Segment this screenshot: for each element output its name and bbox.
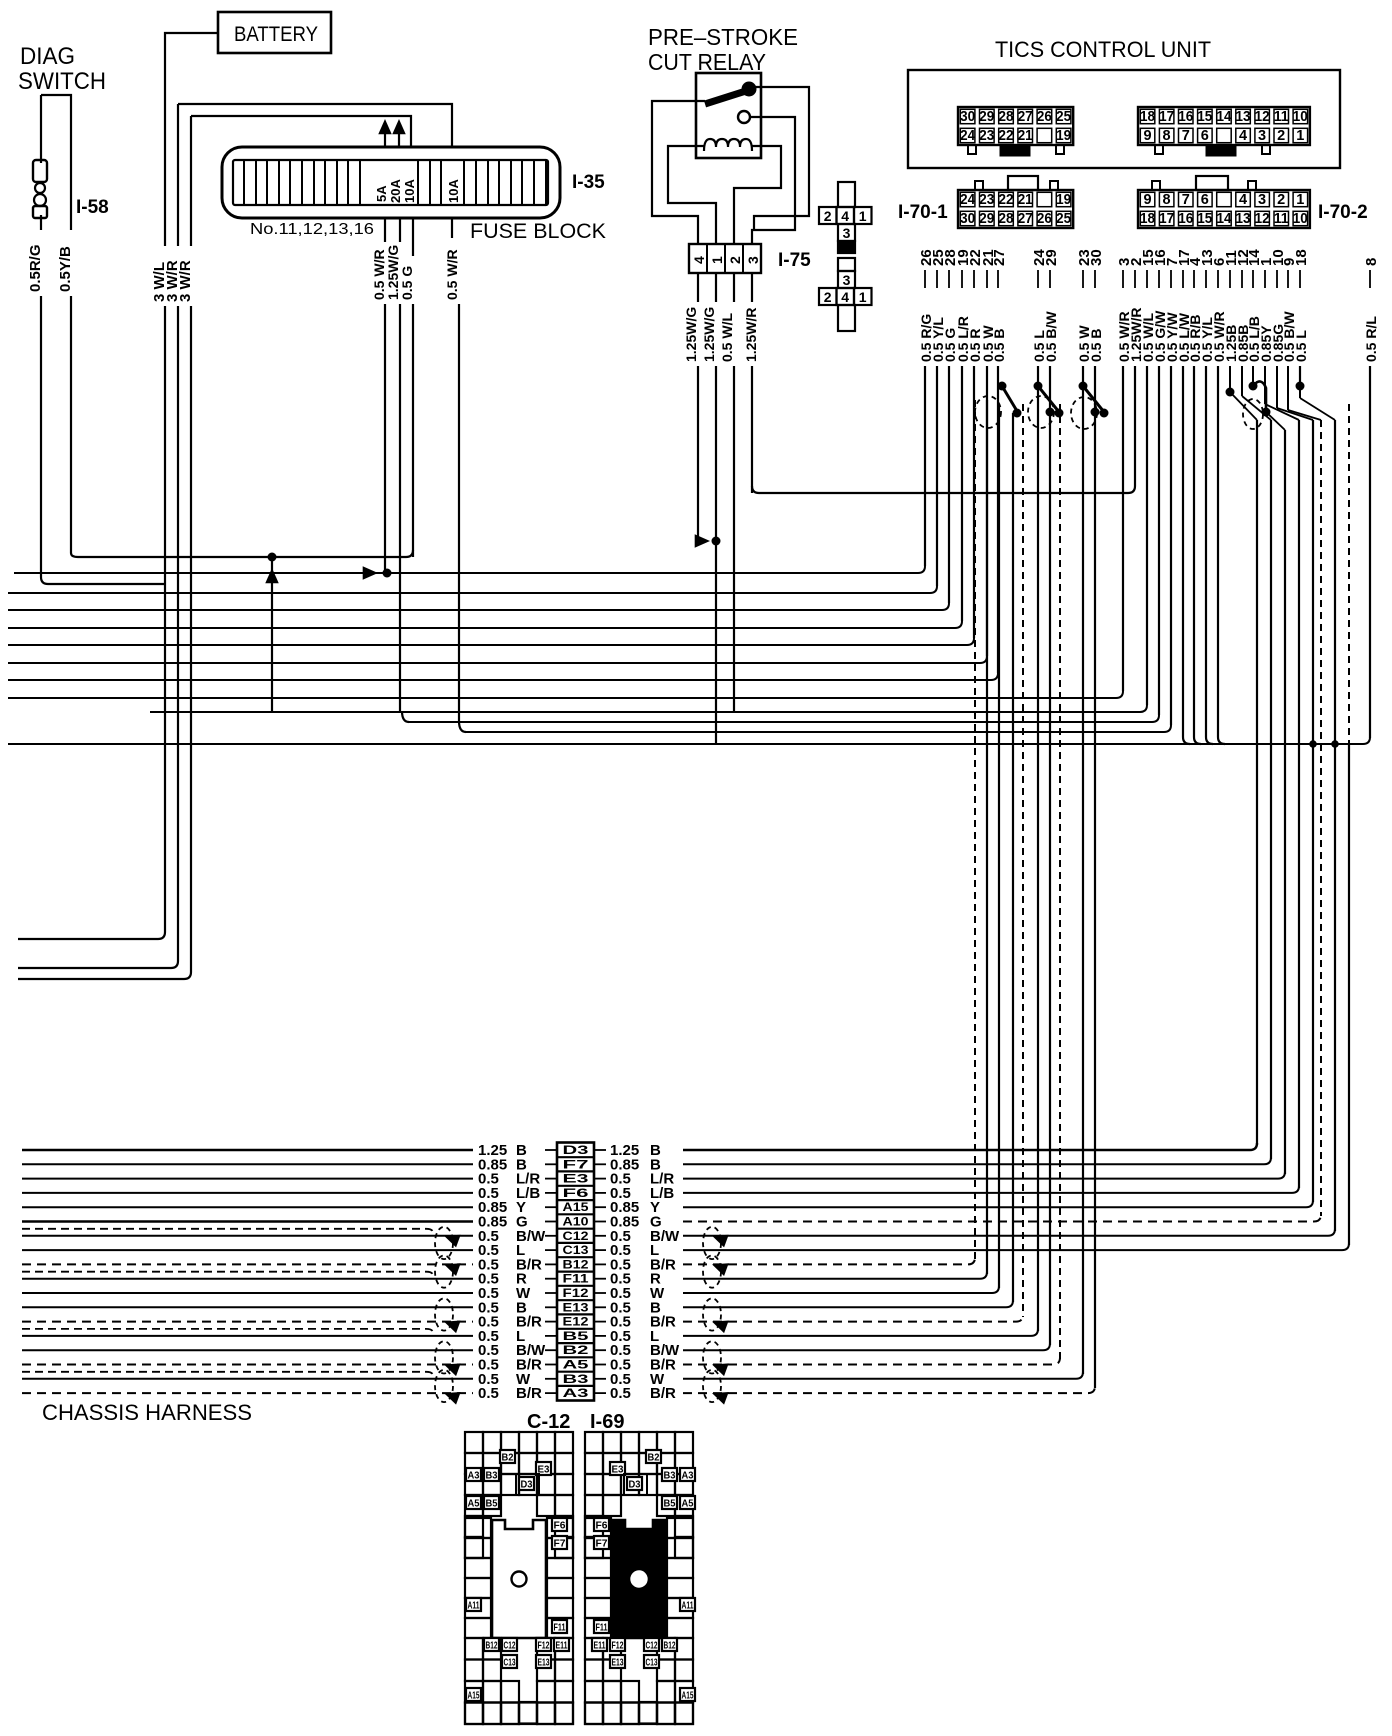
wire bundle B r7 bbox=[1334, 420, 1336, 1231]
svg-text:PRE–STROKE: PRE–STROKE bbox=[648, 24, 798, 50]
svg-text:6: 6 bbox=[1201, 192, 1209, 208]
wire relay coil to pin 2 bbox=[734, 146, 781, 244]
cell label B12 on C-12 bbox=[484, 1638, 499, 1651]
relay box I-75 bbox=[696, 73, 761, 158]
svg-text:8: 8 bbox=[1363, 258, 1380, 266]
svg-text:BATTERY: BATTERY bbox=[234, 23, 318, 46]
svg-text:16: 16 bbox=[1178, 211, 1193, 227]
harness wire right 0.5 W bbox=[683, 1286, 999, 1293]
svg-text:I-75: I-75 bbox=[778, 250, 811, 271]
svg-text:3: 3 bbox=[1258, 192, 1266, 208]
wire 0.5 W/L relay pin2 bbox=[733, 273, 735, 712]
svg-text:E3: E3 bbox=[563, 1174, 589, 1186]
svg-text:F7: F7 bbox=[554, 1539, 566, 1550]
svg-text:B5: B5 bbox=[486, 1499, 498, 1510]
svg-text:3: 3 bbox=[843, 272, 851, 288]
label 0.5 W/R bbox=[372, 242, 388, 304]
cell label B3 on C-12 bbox=[484, 1468, 499, 1481]
connector I-70-2 bbox=[1152, 181, 1160, 190]
cell label A5 on I-69 bbox=[680, 1496, 695, 1509]
harness wire left 0.5 L bbox=[22, 1249, 473, 1251]
wire bus fuse W/G to pin 16 bbox=[402, 711, 409, 722]
svg-text:12: 12 bbox=[1255, 109, 1270, 125]
svg-text:A11: A11 bbox=[468, 1601, 480, 1612]
TICS internal connector grid left bbox=[958, 107, 1073, 145]
harness wire left 0.5 L/B bbox=[22, 1192, 473, 1194]
stub from cell B5 bbox=[594, 1335, 606, 1337]
svg-text:11: 11 bbox=[1274, 109, 1289, 125]
svg-text:10: 10 bbox=[1293, 211, 1308, 227]
jog pin 23 to partner bbox=[1083, 386, 1104, 412]
wire pin 3 vertical bbox=[1122, 366, 1124, 691]
cell label F6 on C-12 bbox=[552, 1518, 567, 1531]
wire bus to pin 21 bbox=[8, 656, 987, 663]
svg-text:25: 25 bbox=[1056, 211, 1071, 227]
svg-text:2: 2 bbox=[824, 289, 832, 305]
wire bundle B r4 bbox=[1298, 420, 1300, 1188]
svg-text:0.5 R/L: 0.5 R/L bbox=[1363, 316, 1379, 362]
harness wire left 0.5 B/R bbox=[22, 1321, 473, 1323]
relay contact point circle bbox=[738, 111, 750, 123]
TICS control unit box bbox=[908, 70, 1340, 168]
svg-text:F6: F6 bbox=[554, 1521, 566, 1532]
relay connector I-75 cells bbox=[689, 244, 761, 273]
svg-text:0.5R/G: 0.5R/G bbox=[27, 244, 44, 292]
svg-text:D3: D3 bbox=[563, 1145, 589, 1157]
wire pin 13 vertical bbox=[1206, 366, 1213, 744]
arrow twist left row 18 bbox=[442, 1387, 461, 1405]
stub from cell A3 bbox=[594, 1392, 606, 1394]
TICS grid left tabs bbox=[968, 145, 976, 154]
svg-text:4: 4 bbox=[841, 289, 849, 305]
wire 1.25W/R relay pin3 bbox=[751, 273, 753, 493]
cell label A5 on C-12 bbox=[466, 1496, 481, 1509]
svg-text:2: 2 bbox=[824, 208, 832, 224]
wire pin 2 vertical bbox=[1134, 366, 1136, 486]
svg-text:10A: 10A bbox=[402, 179, 417, 203]
svg-text:4: 4 bbox=[1239, 128, 1247, 144]
wire pin 23 vertical with junction bbox=[1082, 366, 1084, 386]
wire 1.25W/G relay pin4 bbox=[697, 273, 699, 541]
bottom connector central plug at 465 bbox=[492, 1520, 546, 1638]
svg-text:B/R: B/R bbox=[650, 1385, 676, 1402]
harness wire left 0.85 G bbox=[22, 1220, 473, 1222]
twist ellipse right rows 17-18 bbox=[703, 1370, 721, 1402]
svg-text:D3: D3 bbox=[521, 1480, 533, 1491]
twist ellipse left rows 9-10 bbox=[435, 1255, 453, 1287]
svg-text:2: 2 bbox=[1277, 128, 1285, 144]
stub from cell F12 bbox=[594, 1292, 606, 1294]
arrow twist left row 13 bbox=[442, 1315, 461, 1333]
cell label A3 on I-69 bbox=[680, 1468, 695, 1481]
stub to cell B5 bbox=[545, 1335, 557, 1337]
stub from cell B12 bbox=[594, 1263, 606, 1265]
wire bundle A dashed r9 bbox=[974, 400, 976, 1259]
wire bundle B r5 bbox=[1312, 420, 1314, 1202]
cell label D3 on C-12 bbox=[519, 1477, 534, 1490]
junction dot relay pin1 wire bbox=[712, 537, 721, 546]
junction dot fuse 573 bbox=[383, 569, 392, 578]
twist ellipse right rows 7-8 bbox=[703, 1227, 721, 1259]
wire bus diag Y/B to fuse G bbox=[71, 550, 413, 557]
stub to cell A15 bbox=[545, 1206, 557, 1208]
cell label E3 on I-69 bbox=[610, 1462, 625, 1475]
arrow twist left row 9 bbox=[442, 1258, 461, 1276]
wire pin 30 vertical bbox=[1094, 366, 1096, 412]
wire bus to pin 26 bbox=[14, 566, 925, 573]
svg-text:F12: F12 bbox=[612, 1641, 624, 1652]
svg-text:7: 7 bbox=[1182, 128, 1190, 144]
svg-text:21: 21 bbox=[1018, 192, 1033, 208]
svg-text:E13: E13 bbox=[538, 1658, 550, 1669]
cell label A15 on C-12 bbox=[466, 1688, 481, 1701]
stub from cell D3 bbox=[594, 1149, 606, 1151]
svg-text:28: 28 bbox=[999, 211, 1014, 227]
jog pin 1 bbox=[1264, 366, 1266, 404]
wire bus to pin 27 bbox=[8, 673, 998, 680]
svg-text:29: 29 bbox=[1043, 249, 1060, 266]
label 0.5Y/B bbox=[58, 230, 74, 296]
cell label F6 on I-69 bbox=[594, 1518, 609, 1531]
wire bus long to pin 8 bbox=[8, 737, 1370, 744]
svg-text:F11: F11 bbox=[563, 1274, 590, 1286]
wire bundle A dashed r13 bbox=[1022, 404, 1024, 1317]
svg-text:30: 30 bbox=[1088, 249, 1105, 266]
svg-text:4: 4 bbox=[841, 208, 849, 224]
svg-text:13: 13 bbox=[1236, 211, 1251, 227]
arrow twist left row 7 bbox=[442, 1229, 461, 1247]
svg-text:F11: F11 bbox=[596, 1623, 608, 1634]
harness wire left 0.85 B bbox=[22, 1163, 473, 1165]
wire pin 27 vertical bbox=[997, 366, 999, 673]
svg-text:5A: 5A bbox=[374, 185, 389, 202]
stub to cell E12 bbox=[545, 1321, 557, 1323]
svg-text:7: 7 bbox=[1182, 192, 1190, 208]
wire bundle A solid r11 bbox=[998, 405, 1000, 1288]
svg-text:B12: B12 bbox=[563, 1259, 589, 1271]
svg-text:No.11,12,13,16: No.11,12,13,16 bbox=[250, 221, 374, 238]
cell label C12 on I-69 bbox=[644, 1638, 659, 1651]
svg-text:14: 14 bbox=[1217, 109, 1232, 125]
fuse elements bbox=[244, 160, 546, 205]
svg-text:B5: B5 bbox=[563, 1331, 590, 1343]
svg-text:0.5 W/L: 0.5 W/L bbox=[719, 313, 735, 362]
stub from cell A10 bbox=[594, 1221, 606, 1223]
stub to cell D3 bbox=[545, 1149, 557, 1151]
svg-text:29: 29 bbox=[979, 211, 994, 227]
wire bus relay to pin 2 bbox=[752, 486, 1135, 493]
twist ellipse bundle A1 bbox=[975, 396, 1001, 428]
label 0.5 W/R second bbox=[445, 238, 461, 304]
svg-text:C13: C13 bbox=[646, 1658, 658, 1669]
cell label F11 on I-69 bbox=[594, 1620, 609, 1633]
jog pin 9 bbox=[1287, 366, 1289, 410]
cell label E11 on I-69 bbox=[592, 1638, 607, 1651]
svg-text:1: 1 bbox=[859, 208, 867, 224]
wire 1.25W/G relay pin1 bbox=[715, 273, 717, 744]
wire diag switch bracket bbox=[41, 95, 71, 553]
harness wire left 0.5 L/R bbox=[22, 1178, 473, 1180]
harness wire right 0.5 R bbox=[683, 1272, 987, 1279]
label 1.25W/G bbox=[684, 302, 700, 366]
svg-text:CUT RELAY: CUT RELAY bbox=[648, 49, 766, 75]
svg-text:9: 9 bbox=[1143, 128, 1151, 144]
connector I-58 symbol on diag wire bbox=[33, 160, 47, 182]
svg-text:17: 17 bbox=[1159, 211, 1174, 227]
wire pin 25 vertical bbox=[936, 366, 938, 586]
wire bus fuse W/R to pin 7 bbox=[459, 721, 466, 732]
wire pin 21 vertical bbox=[986, 366, 988, 656]
stub from cell F6 bbox=[594, 1192, 606, 1194]
stub to cell F7 bbox=[545, 1163, 557, 1165]
harness wire left 0.5 B/W bbox=[22, 1349, 473, 1351]
bottom connector bottom block at 585 bbox=[585, 1638, 621, 1724]
hop jog near pin 14 bbox=[1249, 382, 1258, 391]
svg-text:22: 22 bbox=[999, 192, 1014, 208]
harness wire right 0.85 G bbox=[683, 1215, 1321, 1222]
harness wire left 0.5 B/W bbox=[22, 1235, 473, 1237]
svg-text:B2: B2 bbox=[563, 1345, 589, 1357]
cell label B3 on I-69 bbox=[662, 1468, 677, 1481]
wire battery 3 W/L bbox=[18, 33, 218, 939]
harness wire right 0.5 W bbox=[683, 1372, 1083, 1379]
connector cross upper bbox=[838, 182, 855, 207]
jog pin 14 bbox=[1252, 366, 1254, 386]
stub to cell B12 bbox=[545, 1263, 557, 1265]
svg-text:0.5 G: 0.5 G bbox=[399, 266, 415, 300]
svg-text:1: 1 bbox=[859, 289, 867, 305]
svg-text:I-35: I-35 bbox=[572, 172, 605, 193]
wire relay contact circle to pin 3 bbox=[750, 117, 795, 244]
svg-text:I-58: I-58 bbox=[76, 197, 109, 218]
wire 0.5 G below fuse bbox=[412, 218, 414, 557]
wire relay coil to pin 1 bbox=[668, 146, 716, 244]
twist ellipse left rows 12-13 bbox=[435, 1298, 453, 1330]
svg-text:21: 21 bbox=[1018, 128, 1033, 144]
wire pin 24 vertical with junction bbox=[1037, 366, 1039, 386]
stub from cell E13 bbox=[594, 1306, 606, 1308]
wire pin 7 vertical bbox=[1170, 366, 1172, 725]
stub to cell A5 bbox=[545, 1364, 557, 1366]
twist ellipse left rows 15-16 bbox=[435, 1341, 453, 1373]
svg-text:E12: E12 bbox=[563, 1317, 589, 1329]
harness wire right 0.85 B bbox=[683, 1157, 1271, 1164]
svg-text:19: 19 bbox=[1056, 192, 1071, 208]
harness wire right 0.5 B/R bbox=[683, 1386, 1095, 1393]
svg-text:F6: F6 bbox=[563, 1188, 589, 1200]
svg-text:3: 3 bbox=[745, 256, 761, 264]
stub to cell A3 bbox=[545, 1392, 557, 1394]
svg-text:1.25W/R: 1.25W/R bbox=[743, 308, 759, 362]
bottom connector bottom block at 465 bbox=[465, 1638, 501, 1724]
arrow twist right row 18 bbox=[710, 1387, 729, 1405]
harness wire left 1.25 B bbox=[22, 1149, 473, 1151]
svg-text:0.5 B: 0.5 B bbox=[1088, 329, 1104, 362]
stub from cell F11 bbox=[594, 1278, 606, 1280]
arrow up on x272 bbox=[265, 568, 279, 583]
svg-text:FUSE BLOCK: FUSE BLOCK bbox=[470, 220, 606, 243]
svg-text:2: 2 bbox=[1277, 192, 1285, 208]
svg-text:0.5 B/W: 0.5 B/W bbox=[1043, 311, 1059, 362]
svg-text:C13: C13 bbox=[504, 1658, 516, 1669]
svg-text:18: 18 bbox=[1140, 109, 1155, 125]
wire 1.25W/G below fuse bbox=[399, 218, 401, 711]
svg-text:DIAG: DIAG bbox=[20, 43, 75, 70]
stub to cell F12 bbox=[545, 1292, 557, 1294]
cell label F11 on C-12 bbox=[552, 1620, 567, 1633]
bottom connector side strips at 465 bbox=[465, 1518, 491, 1638]
svg-text:9: 9 bbox=[1143, 192, 1151, 208]
svg-text:C12: C12 bbox=[646, 1641, 658, 1652]
wire pin 19 vertical bbox=[961, 366, 963, 621]
cell label A11 on C-12 bbox=[466, 1598, 481, 1611]
wire bundle B dashed r6 bbox=[1320, 420, 1322, 1216]
twist ellipse left rows 7-8 bbox=[435, 1227, 453, 1259]
battery box bbox=[218, 12, 331, 53]
cell label B5 on C-12 bbox=[484, 1496, 499, 1509]
label 3 W/L bbox=[152, 246, 168, 306]
svg-text:D3: D3 bbox=[629, 1480, 641, 1491]
svg-text:26: 26 bbox=[1037, 109, 1052, 125]
wire bundle B r8 bbox=[1348, 404, 1350, 744]
wire bus to pin 22 bbox=[8, 638, 974, 645]
svg-text:18: 18 bbox=[1293, 249, 1310, 266]
svg-text:C12: C12 bbox=[563, 1231, 589, 1243]
label 1.25W/R bbox=[744, 302, 760, 366]
wire pin 6 vertical bbox=[1218, 366, 1225, 744]
bottom connector grid top block at 585 bbox=[585, 1432, 693, 1495]
wire vertical x272 bbox=[271, 557, 273, 712]
harness wire left 0.5 L bbox=[22, 1335, 473, 1337]
svg-text:A5: A5 bbox=[468, 1499, 480, 1510]
cell label F7 on C-12 bbox=[552, 1536, 567, 1549]
wire pin 29 vertical bbox=[1049, 366, 1051, 412]
svg-text:E11: E11 bbox=[556, 1641, 568, 1652]
harness wire right 0.5 L bbox=[683, 1243, 1349, 1250]
svg-text:I-69: I-69 bbox=[590, 1411, 624, 1433]
svg-text:10A: 10A bbox=[446, 179, 461, 203]
cell label A15 on I-69 bbox=[680, 1688, 695, 1701]
svg-text:E11: E11 bbox=[594, 1641, 606, 1652]
svg-text:0.5: 0.5 bbox=[610, 1385, 631, 1402]
svg-text:E3: E3 bbox=[612, 1465, 624, 1476]
harness wire right 0.5 B bbox=[683, 1300, 1013, 1307]
bottom connector central plug at 585 bbox=[612, 1520, 666, 1638]
TICS internal connector grid right bbox=[1138, 107, 1310, 145]
svg-text:3: 3 bbox=[1258, 128, 1266, 144]
svg-text:F7: F7 bbox=[563, 1159, 589, 1171]
stub to cell F6 bbox=[545, 1192, 557, 1194]
svg-text:C12: C12 bbox=[504, 1641, 516, 1652]
svg-text:30: 30 bbox=[960, 109, 975, 125]
jog pin 18 to bundle bbox=[1299, 386, 1301, 398]
arrow fuse 20A to feed bbox=[398, 126, 400, 147]
svg-text:A15: A15 bbox=[563, 1202, 590, 1214]
cell label E11 on C-12 bbox=[554, 1638, 569, 1651]
arrow twist right row 7 bbox=[710, 1229, 729, 1247]
wire bundle A solid r12 bbox=[1012, 413, 1014, 1302]
stub to cell B3 bbox=[545, 1378, 557, 1380]
wire relay contact to pin 4 bbox=[652, 101, 705, 244]
svg-text:30: 30 bbox=[960, 211, 975, 227]
svg-text:6: 6 bbox=[1201, 128, 1209, 144]
harness wire right 0.5 B/R bbox=[683, 1315, 1023, 1322]
svg-text:20A: 20A bbox=[388, 179, 403, 203]
svg-text:SWITCH: SWITCH bbox=[18, 68, 106, 95]
svg-text:25: 25 bbox=[1056, 109, 1071, 125]
svg-text:18: 18 bbox=[1140, 211, 1155, 227]
svg-text:A5: A5 bbox=[563, 1360, 590, 1372]
harness wire left 0.5 W bbox=[22, 1378, 473, 1380]
arrow twist right row 9 bbox=[710, 1258, 729, 1276]
harness wire right 0.5 B/R bbox=[683, 1358, 1060, 1365]
svg-text:A3: A3 bbox=[563, 1388, 589, 1400]
svg-text:C13: C13 bbox=[563, 1245, 589, 1257]
wire bus to pin 28 bbox=[8, 603, 949, 610]
cell label E13 on I-69 bbox=[610, 1655, 625, 1668]
svg-text:B12: B12 bbox=[486, 1641, 498, 1652]
wire pin 4 vertical bbox=[1194, 366, 1201, 744]
wire bus to pin 3 bbox=[8, 691, 1123, 698]
cell label C12 on C-12 bbox=[502, 1638, 517, 1651]
svg-text:A11: A11 bbox=[682, 1601, 694, 1612]
stub from cell B3 bbox=[594, 1378, 606, 1380]
svg-text:B12: B12 bbox=[664, 1641, 676, 1652]
svg-text:A10: A10 bbox=[563, 1217, 589, 1229]
svg-text:A3: A3 bbox=[468, 1471, 480, 1482]
label 0.5 G bbox=[400, 256, 416, 304]
cell label A11 on I-69 bbox=[680, 1598, 695, 1611]
label 0.5 W/L bbox=[720, 302, 736, 366]
stub from cell A15 bbox=[594, 1206, 606, 1208]
wire bus to pin 15 from junction bbox=[150, 705, 1147, 712]
svg-text:3 W/R: 3 W/R bbox=[177, 260, 194, 302]
svg-text:27: 27 bbox=[991, 249, 1008, 266]
svg-text:1: 1 bbox=[1296, 128, 1304, 144]
harness wire left 0.5 W bbox=[22, 1292, 473, 1294]
wire pin 8 vertical bbox=[1369, 366, 1371, 738]
arrow fuse 5A to feed bbox=[384, 126, 386, 147]
svg-text:14: 14 bbox=[1217, 211, 1232, 227]
svg-text:A3: A3 bbox=[682, 1471, 694, 1482]
svg-text:E13: E13 bbox=[563, 1302, 589, 1314]
svg-text:4: 4 bbox=[1239, 192, 1247, 208]
wire bundle B r1 bbox=[1256, 420, 1258, 1145]
svg-text:10: 10 bbox=[1293, 109, 1308, 125]
fuse block outer body I-35 bbox=[222, 147, 560, 218]
cell label B2 on I-69 bbox=[646, 1450, 661, 1463]
label 3 W/R second bbox=[178, 246, 194, 306]
svg-text:B2: B2 bbox=[502, 1453, 514, 1464]
harness wire right 0.5 L/R bbox=[683, 1172, 1285, 1179]
svg-text:15: 15 bbox=[1197, 109, 1212, 125]
harness wire right 0.5 B/W bbox=[683, 1343, 1050, 1350]
svg-text:26: 26 bbox=[1037, 211, 1052, 227]
arrow into fuse junction bbox=[363, 566, 378, 580]
junction dot bus 557 bbox=[268, 553, 277, 562]
cell label B12 on I-69 bbox=[662, 1638, 677, 1651]
harness wire right 0.85 Y bbox=[683, 1200, 1313, 1207]
stub from cell E3 bbox=[594, 1178, 606, 1180]
svg-text:B5: B5 bbox=[664, 1499, 676, 1510]
svg-text:1: 1 bbox=[709, 256, 725, 264]
stub to cell E13 bbox=[545, 1306, 557, 1308]
svg-text:23: 23 bbox=[979, 192, 994, 208]
svg-text:F6: F6 bbox=[596, 1521, 608, 1532]
svg-text:29: 29 bbox=[979, 109, 994, 125]
stub to cell F11 bbox=[545, 1278, 557, 1280]
cell label E3 on C-12 bbox=[536, 1462, 551, 1475]
